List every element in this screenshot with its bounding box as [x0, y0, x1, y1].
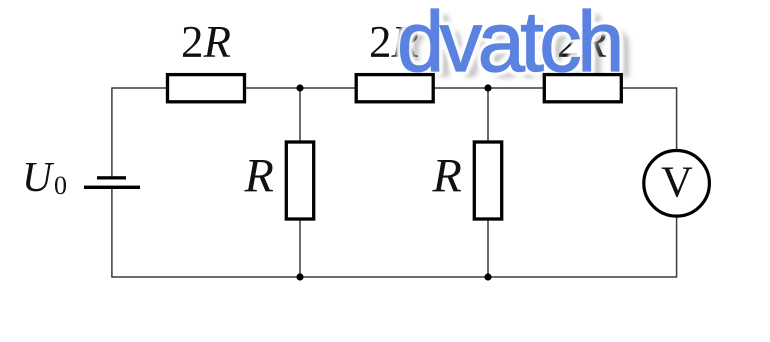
wire node B vertical stub (top rail to R5): [487, 88, 489, 142]
svg-text:U: U: [22, 155, 55, 201]
node B junction dot (top): [484, 84, 491, 91]
wire top rail segment 1: [111, 87, 167, 89]
wire node A vertical stub (top rail to R4): [299, 88, 301, 142]
resistor R2 (2R horizontal): [356, 75, 433, 102]
svg-text:R: R: [432, 150, 462, 203]
wire bottom rail: [111, 276, 677, 278]
resistor R5 (R vertical): [474, 142, 501, 219]
wire left vertical lower (source to bottom rail): [111, 189, 113, 278]
svg-text:R: R: [244, 150, 274, 203]
wire right vertical lower (voltmeter to bottom rail): [676, 217, 678, 278]
wire top rail segment 2 (R1 to R2, through node A): [245, 87, 357, 89]
wire top rail segment 4 (R3 to right corner): [621, 87, 677, 89]
wire right vertical upper (to voltmeter): [676, 87, 678, 150]
node B' junction dot (bottom): [484, 273, 491, 280]
voltmeter V1 circle: [644, 151, 710, 217]
resistor R1 (2R horizontal): [168, 75, 245, 102]
resistor R4 (R vertical): [286, 142, 313, 219]
battery U0 long plate: [84, 186, 140, 189]
node A' junction dot (bottom): [296, 273, 303, 280]
svg-text:0: 0: [54, 171, 67, 200]
resistor R3 (2R horizontal): [544, 75, 621, 102]
wire left vertical upper (source to top rail): [111, 88, 113, 177]
svg-text:2R: 2R: [181, 17, 231, 67]
node A junction dot (top): [296, 84, 303, 91]
wire R4 to bottom rail: [299, 219, 301, 277]
watermark dvatch: [397, 0, 630, 96]
wire top rail segment 3 (R2 to R3, through node B): [433, 87, 544, 89]
battery U0 short plate: [97, 176, 126, 179]
svg-text:V: V: [661, 158, 693, 207]
wire R5 to bottom rail: [487, 219, 489, 277]
